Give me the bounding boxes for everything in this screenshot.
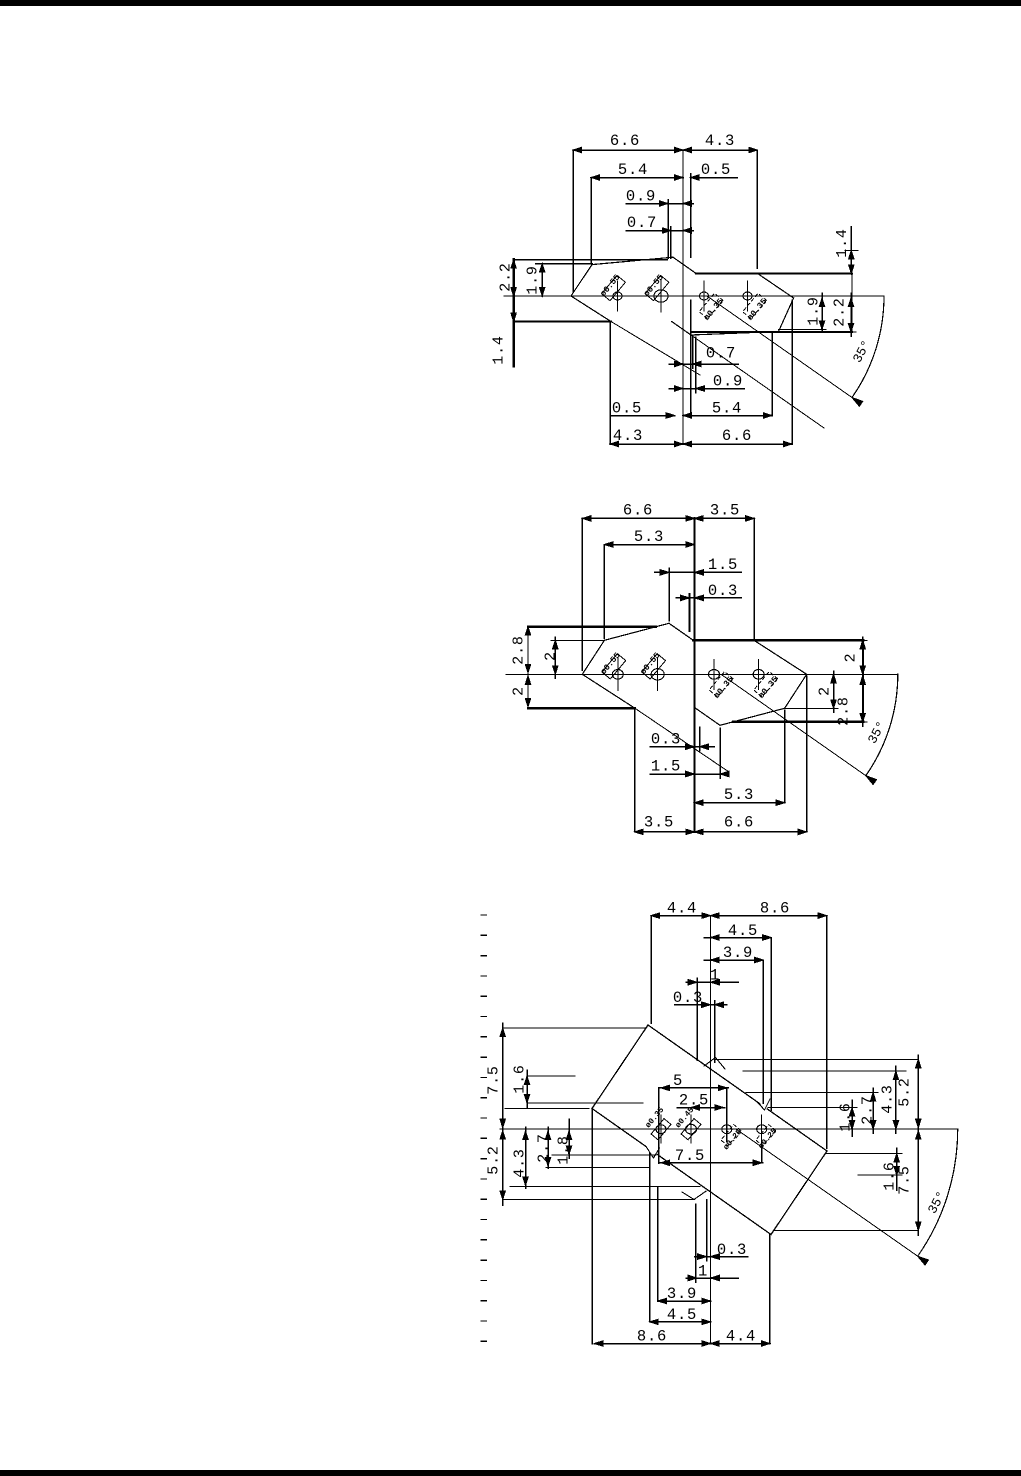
svg-text:1.9: 1.9 xyxy=(805,296,822,325)
svg-text:2: 2 xyxy=(510,686,527,696)
svg-text:0.5: 0.5 xyxy=(612,400,642,418)
svg-text:3.9: 3.9 xyxy=(723,944,753,962)
svg-text:2: 2 xyxy=(842,653,859,663)
svg-text:2: 2 xyxy=(816,686,833,696)
svg-text:2.8: 2.8 xyxy=(835,696,852,725)
svg-text:2.2: 2.2 xyxy=(831,297,848,326)
svg-text:5.3: 5.3 xyxy=(724,786,754,804)
svg-text:3.9: 3.9 xyxy=(667,1285,697,1303)
svg-text:ø0.35: ø0.35 xyxy=(702,297,726,323)
svg-text:0.3: 0.3 xyxy=(673,989,703,1007)
svg-text:6.6: 6.6 xyxy=(722,427,752,445)
svg-text:0.9: 0.9 xyxy=(713,373,743,391)
svg-text:2.7: 2.7 xyxy=(859,1095,876,1124)
svg-text:4.5: 4.5 xyxy=(667,1306,697,1324)
svg-text:0.7: 0.7 xyxy=(706,345,736,363)
svg-text:2: 2 xyxy=(542,651,559,661)
svg-text:4.3: 4.3 xyxy=(879,1084,896,1113)
svg-text:2.5: 2.5 xyxy=(679,1092,709,1110)
svg-text:ø0.25: ø0.25 xyxy=(722,1128,744,1152)
svg-text:4.3: 4.3 xyxy=(613,427,643,445)
svg-text:1.5: 1.5 xyxy=(708,556,738,574)
svg-text:0.5: 0.5 xyxy=(701,161,731,179)
svg-text:35°: 35° xyxy=(925,1189,949,1217)
svg-text:0.9: 0.9 xyxy=(626,188,656,206)
svg-text:4.5: 4.5 xyxy=(728,922,758,940)
svg-text:4.4: 4.4 xyxy=(667,900,697,918)
svg-text:2.8: 2.8 xyxy=(510,635,527,664)
svg-text:6.6: 6.6 xyxy=(724,814,754,832)
svg-text:0.7: 0.7 xyxy=(627,214,657,232)
svg-text:1: 1 xyxy=(710,967,720,985)
svg-text:2.7: 2.7 xyxy=(535,1133,552,1162)
svg-text:1.9: 1.9 xyxy=(524,265,541,294)
svg-text:5: 5 xyxy=(673,1072,683,1090)
svg-text:8.6: 8.6 xyxy=(760,900,790,918)
svg-text:5.2: 5.2 xyxy=(485,1145,502,1174)
svg-text:0.3: 0.3 xyxy=(708,582,738,600)
svg-text:3.5: 3.5 xyxy=(644,814,674,832)
svg-text:ø0.55: ø0.55 xyxy=(599,651,623,677)
svg-text:8.6: 8.6 xyxy=(637,1328,667,1346)
svg-text:1.5: 1.5 xyxy=(651,758,681,776)
svg-text:1.6: 1.6 xyxy=(881,1161,898,1190)
svg-text:1.6: 1.6 xyxy=(837,1102,854,1131)
svg-text:4.4: 4.4 xyxy=(726,1328,756,1346)
svg-text:1.4: 1.4 xyxy=(490,335,507,364)
svg-text:7.5: 7.5 xyxy=(485,1065,502,1094)
svg-text:2.2: 2.2 xyxy=(497,262,514,291)
svg-text:6.6: 6.6 xyxy=(623,502,653,520)
svg-text:7.5: 7.5 xyxy=(896,1165,913,1194)
svg-text:3.5: 3.5 xyxy=(710,502,740,520)
svg-text:5.3: 5.3 xyxy=(634,528,664,546)
svg-text:4.3: 4.3 xyxy=(511,1148,528,1177)
svg-text:ø0.55: ø0.55 xyxy=(598,273,622,299)
svg-text:ø0.35: ø0.35 xyxy=(644,1106,666,1130)
svg-text:1: 1 xyxy=(698,1263,708,1281)
svg-text:1.4: 1.4 xyxy=(834,228,851,257)
svg-text:4.3: 4.3 xyxy=(705,132,735,150)
svg-text:5.4: 5.4 xyxy=(712,400,742,418)
svg-text:6.6: 6.6 xyxy=(610,132,640,150)
svg-text:ø0.35: ø0.35 xyxy=(745,297,769,323)
svg-text:0.3: 0.3 xyxy=(651,731,681,749)
svg-text:1.8: 1.8 xyxy=(555,1135,572,1164)
svg-text:0.3: 0.3 xyxy=(717,1241,747,1259)
svg-text:5.2: 5.2 xyxy=(896,1077,913,1106)
svg-text:5.4: 5.4 xyxy=(618,161,648,179)
svg-text:35°: 35° xyxy=(865,719,889,747)
svg-text:ø0.25: ø0.25 xyxy=(757,1127,779,1151)
svg-text:ø0.55: ø0.55 xyxy=(638,651,662,677)
svg-text:1.6: 1.6 xyxy=(511,1064,528,1093)
svg-text:7.5: 7.5 xyxy=(675,1147,705,1165)
svg-text:35°: 35° xyxy=(850,338,874,366)
